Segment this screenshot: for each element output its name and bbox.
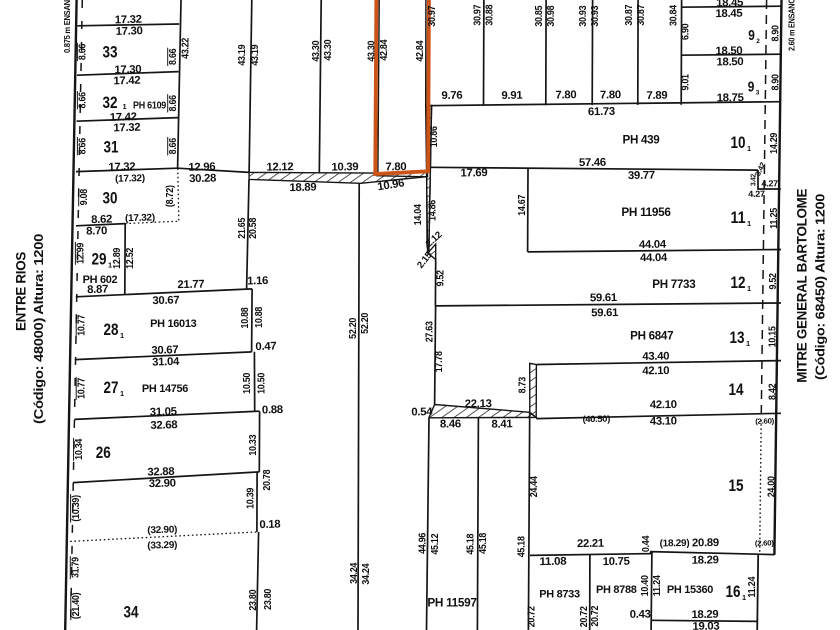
svg-text:14: 14 bbox=[729, 380, 745, 399]
svg-text:45.18: 45.18 bbox=[465, 533, 476, 554]
svg-text:8.73: 8.73 bbox=[517, 377, 528, 394]
wire lot29 right edge bbox=[124, 224, 126, 295]
wire PH11597 block left edge bbox=[427, 418, 430, 630]
wire 44.04 boundary lot11 bottom bbox=[528, 250, 781, 252]
svg-text:30.85: 30.85 bbox=[534, 5, 545, 26]
wire small lot divider 30.93/30.93 bbox=[591, 0, 593, 105]
wire 21.65/20.58 edge bbox=[247, 179, 249, 289]
svg-text:18.29: 18.29 bbox=[691, 609, 718, 621]
svg-text:30.28: 30.28 bbox=[189, 172, 216, 185]
wire lot9-2/9-3 boundary bbox=[681, 54, 781, 55]
svg-text:PH 11956: PH 11956 bbox=[621, 207, 670, 219]
svg-text:8.66: 8.66 bbox=[78, 138, 89, 155]
node highlighted parcel outline (orange) bbox=[375, 0, 429, 174]
svg-text:10.77: 10.77 bbox=[76, 314, 87, 335]
svg-text:PH 16013: PH 16013 bbox=[150, 318, 196, 330]
svg-text:34: 34 bbox=[124, 603, 140, 622]
svg-text:10.50: 10.50 bbox=[242, 372, 253, 393]
svg-text:ENTRE RIOS: ENTRE RIOS bbox=[13, 252, 28, 331]
wire PH8733/PH8788 divider bbox=[589, 555, 591, 630]
wire lot28/27 boundary bbox=[75, 352, 252, 360]
wire 61.73 boundary line bbox=[426, 102, 781, 106]
svg-text:8.66: 8.66 bbox=[168, 138, 179, 155]
svg-text:12: 12 bbox=[731, 273, 746, 292]
svg-text:9.08: 9.08 bbox=[79, 189, 90, 206]
svg-text:12.12: 12.12 bbox=[266, 161, 293, 174]
svg-text:9: 9 bbox=[748, 28, 755, 44]
node 18.89 hatched strip bbox=[249, 171, 428, 184]
svg-text:39.77: 39.77 bbox=[628, 170, 655, 182]
svg-text:61.73: 61.73 bbox=[588, 106, 615, 118]
svg-text:14.86: 14.86 bbox=[427, 200, 438, 221]
svg-text:7.80: 7.80 bbox=[600, 89, 621, 101]
svg-text:10.39: 10.39 bbox=[331, 161, 358, 174]
svg-text:8.42: 8.42 bbox=[767, 383, 778, 400]
wire 43.30 strip divider bbox=[319, 0, 321, 173]
svg-text:1: 1 bbox=[747, 219, 751, 228]
svg-text:12.52: 12.52 bbox=[125, 247, 136, 268]
node 8.73 hatched column bbox=[530, 363, 537, 417]
wire left ensanche dashed line bbox=[71, 0, 83, 630]
svg-text:PH 11597: PH 11597 bbox=[427, 597, 476, 609]
wire small lot divider 30.97/30.88 bbox=[483, 0, 485, 106]
wire 10.39 lot right edge bbox=[256, 472, 258, 532]
svg-text:16: 16 bbox=[726, 582, 741, 601]
svg-text:9.91: 9.91 bbox=[501, 90, 522, 102]
svg-text:45.12: 45.12 bbox=[430, 533, 441, 554]
wire lot34 right edge bbox=[257, 532, 259, 630]
svg-text:(40.50): (40.50) bbox=[582, 414, 610, 424]
svg-text:42.84: 42.84 bbox=[379, 39, 390, 60]
svg-text:PH 6109: PH 6109 bbox=[133, 100, 166, 111]
svg-text:2: 2 bbox=[756, 38, 760, 45]
svg-text:20.58: 20.58 bbox=[248, 217, 259, 238]
svg-text:(21.40): (21.40) bbox=[71, 593, 82, 620]
svg-text:PH 7733: PH 7733 bbox=[652, 279, 695, 291]
svg-text:34.24: 34.24 bbox=[349, 562, 360, 583]
svg-text:43.30: 43.30 bbox=[323, 39, 334, 60]
wire lot33 top boundary bbox=[78, 24, 180, 26]
svg-text:4.27: 4.27 bbox=[748, 189, 765, 199]
svg-text:43.30: 43.30 bbox=[311, 40, 322, 61]
svg-text:18.75: 18.75 bbox=[717, 92, 744, 104]
svg-text:52.20: 52.20 bbox=[348, 317, 359, 338]
wire 12.96 boundary extension bbox=[178, 168, 250, 172]
svg-text:8.66: 8.66 bbox=[78, 43, 89, 60]
svg-text:10.34: 10.34 bbox=[74, 438, 85, 459]
svg-text:13: 13 bbox=[730, 328, 745, 347]
svg-text:20.78: 20.78 bbox=[262, 469, 273, 490]
svg-text:(33.29): (33.29) bbox=[147, 540, 177, 552]
svg-text:0.47: 0.47 bbox=[255, 341, 276, 354]
svg-text:59.61: 59.61 bbox=[590, 292, 617, 304]
wire small lot divider 30.85/30.98 bbox=[545, 0, 547, 105]
svg-text:26: 26 bbox=[96, 443, 111, 462]
svg-text:8.70: 8.70 bbox=[86, 225, 107, 238]
svg-text:27.63: 27.63 bbox=[425, 321, 436, 342]
svg-text:(8.72): (8.72) bbox=[165, 185, 176, 207]
svg-text:(Código: 48000) Altura: 1200: (Código: 48000) Altura: 1200 bbox=[31, 234, 46, 424]
svg-text:20.72: 20.72 bbox=[526, 606, 537, 627]
svg-text:1: 1 bbox=[746, 339, 750, 348]
svg-text:32: 32 bbox=[103, 93, 118, 112]
svg-text:31.79: 31.79 bbox=[71, 557, 82, 578]
svg-text:0.43: 0.43 bbox=[630, 609, 651, 621]
wire boundary below orange bottom edge bbox=[376, 176, 428, 177]
wire right street line MITRE bbox=[774, 0, 781, 555]
svg-text:4.27: 4.27 bbox=[761, 178, 778, 188]
svg-text:18.29: 18.29 bbox=[692, 554, 719, 566]
svg-text:30.97: 30.97 bbox=[427, 5, 438, 26]
svg-text:17.32: 17.32 bbox=[108, 161, 135, 174]
svg-text:30.93: 30.93 bbox=[578, 5, 589, 26]
svg-text:14.67: 14.67 bbox=[517, 194, 528, 215]
svg-text:8.87: 8.87 bbox=[87, 284, 108, 297]
wire 43.40/42.10 boundary lot13 bottom bbox=[537, 361, 781, 365]
svg-text:32.68: 32.68 bbox=[150, 419, 177, 432]
svg-text:12.99: 12.99 bbox=[76, 242, 87, 263]
svg-text:1: 1 bbox=[747, 144, 751, 153]
svg-text:PH 15360: PH 15360 bbox=[667, 584, 713, 596]
wire 45.18 divider bbox=[477, 418, 478, 630]
svg-text:23.80: 23.80 bbox=[248, 589, 259, 610]
svg-text:42.10: 42.10 bbox=[650, 399, 677, 411]
svg-text:17.30: 17.30 bbox=[116, 25, 143, 38]
svg-text:30.98: 30.98 bbox=[546, 5, 557, 26]
wire 10.86/14.86 boundary line bbox=[429, 105, 432, 253]
wire lot28 right edge bbox=[251, 289, 254, 352]
svg-text:32.90: 32.90 bbox=[149, 477, 176, 490]
svg-text:43.19: 43.19 bbox=[237, 44, 248, 65]
svg-text:30.88: 30.88 bbox=[485, 4, 496, 25]
svg-text:30.87: 30.87 bbox=[636, 4, 647, 25]
node hatched wedge beside orange bbox=[426, 105, 431, 253]
svg-text:42.84: 42.84 bbox=[415, 40, 426, 61]
wire lot15 left edge / 24.44 line bbox=[528, 412, 529, 630]
svg-text:30.97: 30.97 bbox=[473, 4, 484, 25]
svg-text:9: 9 bbox=[748, 80, 755, 96]
svg-text:PH 439: PH 439 bbox=[623, 135, 660, 147]
wire lot16 right edge bbox=[757, 554, 758, 630]
svg-text:7.80: 7.80 bbox=[555, 89, 576, 101]
wire lot33/32 boundary bbox=[77, 72, 179, 76]
svg-text:9.52: 9.52 bbox=[768, 273, 779, 290]
svg-text:18.89: 18.89 bbox=[289, 182, 316, 195]
wire jog 0.88 bbox=[255, 410, 260, 412]
wire 43.22 column right edge bbox=[178, 0, 181, 168]
svg-text:PH 14756: PH 14756 bbox=[142, 383, 188, 395]
wire lot27/26 boundary bbox=[74, 411, 254, 419]
svg-text:29: 29 bbox=[92, 250, 107, 269]
svg-text:1: 1 bbox=[120, 389, 124, 398]
svg-text:10.50: 10.50 bbox=[256, 372, 267, 393]
svg-text:44.96: 44.96 bbox=[417, 532, 428, 553]
svg-text:10.15: 10.15 bbox=[767, 326, 778, 347]
svg-text:6.90: 6.90 bbox=[681, 23, 692, 40]
svg-text:10.88: 10.88 bbox=[240, 307, 251, 328]
wire 57.46 boundary lot10 bottom bbox=[430, 167, 758, 170]
wire 42.10/43.10 boundary lot14 bottom bbox=[536, 413, 781, 418]
svg-text:8.41: 8.41 bbox=[491, 418, 512, 430]
svg-text:31.05: 31.05 bbox=[150, 406, 177, 419]
svg-text:11.08: 11.08 bbox=[539, 556, 566, 568]
svg-text:9.01: 9.01 bbox=[680, 74, 691, 91]
svg-text:43.30: 43.30 bbox=[366, 40, 377, 61]
svg-text:1.16: 1.16 bbox=[247, 275, 268, 288]
svg-text:11.24: 11.24 bbox=[652, 575, 663, 596]
wire lot11 left edge 14.67 bbox=[527, 168, 529, 252]
svg-text:1: 1 bbox=[742, 593, 746, 602]
svg-text:24.44: 24.44 bbox=[529, 476, 540, 497]
svg-text:(17.32): (17.32) bbox=[125, 212, 155, 224]
wire lot26 right edge bbox=[258, 411, 260, 472]
svg-text:52.20: 52.20 bbox=[360, 312, 371, 333]
svg-text:8.62: 8.62 bbox=[91, 214, 112, 227]
svg-text:(2.60): (2.60) bbox=[755, 416, 775, 425]
svg-text:17.32: 17.32 bbox=[113, 122, 140, 135]
svg-text:44.04: 44.04 bbox=[639, 239, 667, 251]
svg-text:PH 8788: PH 8788 bbox=[596, 584, 637, 596]
svg-text:14.29: 14.29 bbox=[769, 132, 780, 153]
svg-text:(10.39): (10.39) bbox=[71, 495, 82, 522]
svg-text:21.65: 21.65 bbox=[237, 217, 248, 238]
svg-text:18.50: 18.50 bbox=[716, 56, 743, 68]
svg-text:57.46: 57.46 bbox=[579, 157, 606, 169]
svg-text:10.39: 10.39 bbox=[245, 487, 256, 508]
wire left street line ENTRE RIOS bbox=[65, 0, 76, 630]
svg-text:0.44: 0.44 bbox=[641, 535, 652, 552]
wire lot30/29 boundary 8.62 bbox=[76, 224, 125, 226]
svg-text:PH 8733: PH 8733 bbox=[539, 589, 580, 601]
wire 59.61 boundary lot12 bottom bbox=[436, 303, 782, 306]
svg-text:23.80: 23.80 bbox=[263, 588, 274, 609]
svg-text:45.18: 45.18 bbox=[478, 532, 489, 553]
wire 9.52 edge bbox=[434, 259, 436, 306]
wire boundary right of orange parcel bbox=[426, 0, 428, 253]
wire small lot divider 30.87/30.87 bbox=[637, 0, 639, 105]
svg-text:10.40: 10.40 bbox=[640, 575, 651, 596]
svg-text:8.66: 8.66 bbox=[168, 48, 179, 65]
svg-text:7.89: 7.89 bbox=[646, 90, 667, 102]
svg-text:10.33: 10.33 bbox=[248, 434, 259, 455]
svg-text:8.90: 8.90 bbox=[770, 74, 781, 91]
svg-text:11.24: 11.24 bbox=[747, 576, 758, 597]
wire lot15 bottom boundary with 0.44 jog bbox=[530, 552, 775, 556]
svg-text:(Código: 68450) Altura: 1200: (Código: 68450) Altura: 1200 bbox=[813, 194, 828, 380]
wire 52.20/34.24 long middle line bbox=[358, 183, 359, 630]
wire lot27 right edge bbox=[253, 352, 255, 412]
svg-text:8.66: 8.66 bbox=[168, 95, 179, 112]
svg-text:34.24: 34.24 bbox=[361, 563, 372, 584]
svg-text:17.69: 17.69 bbox=[460, 167, 487, 179]
svg-text:10.88: 10.88 bbox=[254, 306, 265, 327]
svg-text:1: 1 bbox=[747, 284, 751, 293]
svg-text:0.54: 0.54 bbox=[411, 406, 433, 418]
wire PH8788/PH15360 divider bbox=[650, 552, 653, 630]
svg-text:(2.60): (2.60) bbox=[755, 538, 775, 547]
svg-text:30.87: 30.87 bbox=[624, 4, 635, 25]
svg-text:45.18: 45.18 bbox=[516, 536, 527, 557]
svg-text:18.45: 18.45 bbox=[715, 8, 742, 20]
wire right ensanche dashed line bbox=[761, 0, 766, 420]
svg-text:0.875 m ENSANCHE: 0.875 m ENSANCHE bbox=[62, 0, 72, 53]
svg-text:10: 10 bbox=[731, 133, 746, 152]
wire lot9-2 top boundary bbox=[682, 6, 782, 7]
svg-text:0.18: 0.18 bbox=[259, 519, 280, 532]
svg-text:10.77: 10.77 bbox=[76, 377, 87, 398]
wire dotted (32.90) boundary above lot34 bbox=[70, 532, 257, 542]
svg-text:33: 33 bbox=[103, 43, 118, 62]
svg-text:20.72: 20.72 bbox=[579, 606, 590, 627]
svg-text:28: 28 bbox=[104, 320, 119, 339]
svg-text:15: 15 bbox=[729, 476, 744, 495]
svg-text:8.90: 8.90 bbox=[771, 25, 782, 42]
wire lot9 left edge bbox=[680, 0, 682, 105]
svg-text:3: 3 bbox=[756, 90, 760, 97]
svg-text:27: 27 bbox=[104, 378, 119, 397]
wire 4.27 notch bbox=[758, 170, 781, 189]
svg-text:8.46: 8.46 bbox=[440, 418, 461, 430]
wire dotted lot30 right edge bbox=[178, 168, 179, 221]
svg-text:24.00: 24.00 bbox=[766, 476, 777, 497]
svg-text:22.13: 22.13 bbox=[465, 398, 492, 410]
svg-text:43.19: 43.19 bbox=[250, 44, 261, 65]
node 22.13 hatched band bbox=[429, 405, 536, 418]
wire right ensanche dotted segment beside lot 15 bbox=[760, 420, 762, 554]
svg-text:12.89: 12.89 bbox=[112, 247, 123, 268]
svg-text:43.22: 43.22 bbox=[180, 37, 191, 58]
svg-text:9.76: 9.76 bbox=[441, 90, 462, 102]
svg-text:1: 1 bbox=[120, 331, 124, 340]
svg-text:43.10: 43.10 bbox=[650, 415, 677, 427]
svg-text:(32.90): (32.90) bbox=[147, 524, 177, 536]
svg-text:22.21: 22.21 bbox=[577, 538, 604, 550]
wire lot16 bottom boundary bbox=[651, 620, 758, 621]
svg-text:1: 1 bbox=[123, 102, 127, 111]
svg-text:(18.29): (18.29) bbox=[659, 538, 689, 549]
svg-text:14.04: 14.04 bbox=[413, 204, 424, 225]
svg-text:44.04: 44.04 bbox=[640, 252, 668, 264]
svg-text:30: 30 bbox=[103, 189, 118, 208]
wire lot13 left edge 27.63 bbox=[435, 306, 436, 405]
svg-text:20.89: 20.89 bbox=[692, 537, 719, 549]
svg-text:2.60 m ENSANCHE: 2.60 m ENSANCHE bbox=[787, 0, 797, 51]
svg-text:7.80: 7.80 bbox=[385, 161, 406, 173]
svg-text:20.72: 20.72 bbox=[590, 605, 601, 626]
svg-text:11: 11 bbox=[731, 208, 746, 227]
svg-text:43.40: 43.40 bbox=[642, 350, 669, 362]
svg-text:MITRE GENERAL BARTOLOME: MITRE GENERAL BARTOLOME bbox=[794, 189, 809, 383]
svg-text:30.84: 30.84 bbox=[669, 5, 680, 26]
svg-text:31.04: 31.04 bbox=[152, 356, 180, 369]
svg-text:17.78: 17.78 bbox=[434, 351, 445, 372]
wire lot26 bottom boundary bbox=[73, 472, 260, 483]
svg-text:42.10: 42.10 bbox=[642, 365, 669, 377]
svg-text:31: 31 bbox=[104, 138, 119, 157]
svg-text:8.66: 8.66 bbox=[78, 92, 89, 109]
svg-text:21.77: 21.77 bbox=[177, 278, 204, 291]
svg-text:19.03: 19.03 bbox=[692, 620, 719, 630]
wire dotted (17.32) projection bbox=[125, 221, 178, 223]
wire 43.19 strip divider bbox=[249, 0, 252, 172]
wire lot29/28 boundary 30.67 bbox=[76, 289, 252, 297]
wire lot31/30 boundary bbox=[76, 168, 178, 171]
svg-text:17.42: 17.42 bbox=[113, 75, 140, 88]
svg-text:30.93: 30.93 bbox=[590, 5, 601, 26]
node 2.12/2.15 hatched triangle bbox=[428, 244, 436, 259]
svg-text:10.75: 10.75 bbox=[603, 556, 630, 568]
svg-text:0.88: 0.88 bbox=[262, 404, 283, 417]
svg-text:30.67: 30.67 bbox=[152, 294, 179, 307]
svg-text:(17.32): (17.32) bbox=[115, 173, 145, 185]
wire lot32/31 boundary bbox=[77, 118, 179, 122]
svg-text:11.25: 11.25 bbox=[769, 207, 780, 228]
svg-text:PH 6847: PH 6847 bbox=[630, 331, 673, 343]
wire boundary right of orange left edge bbox=[378, 0, 379, 173]
svg-text:10.86: 10.86 bbox=[429, 126, 440, 147]
svg-text:9.52: 9.52 bbox=[435, 270, 446, 287]
svg-text:59.61: 59.61 bbox=[591, 307, 618, 319]
